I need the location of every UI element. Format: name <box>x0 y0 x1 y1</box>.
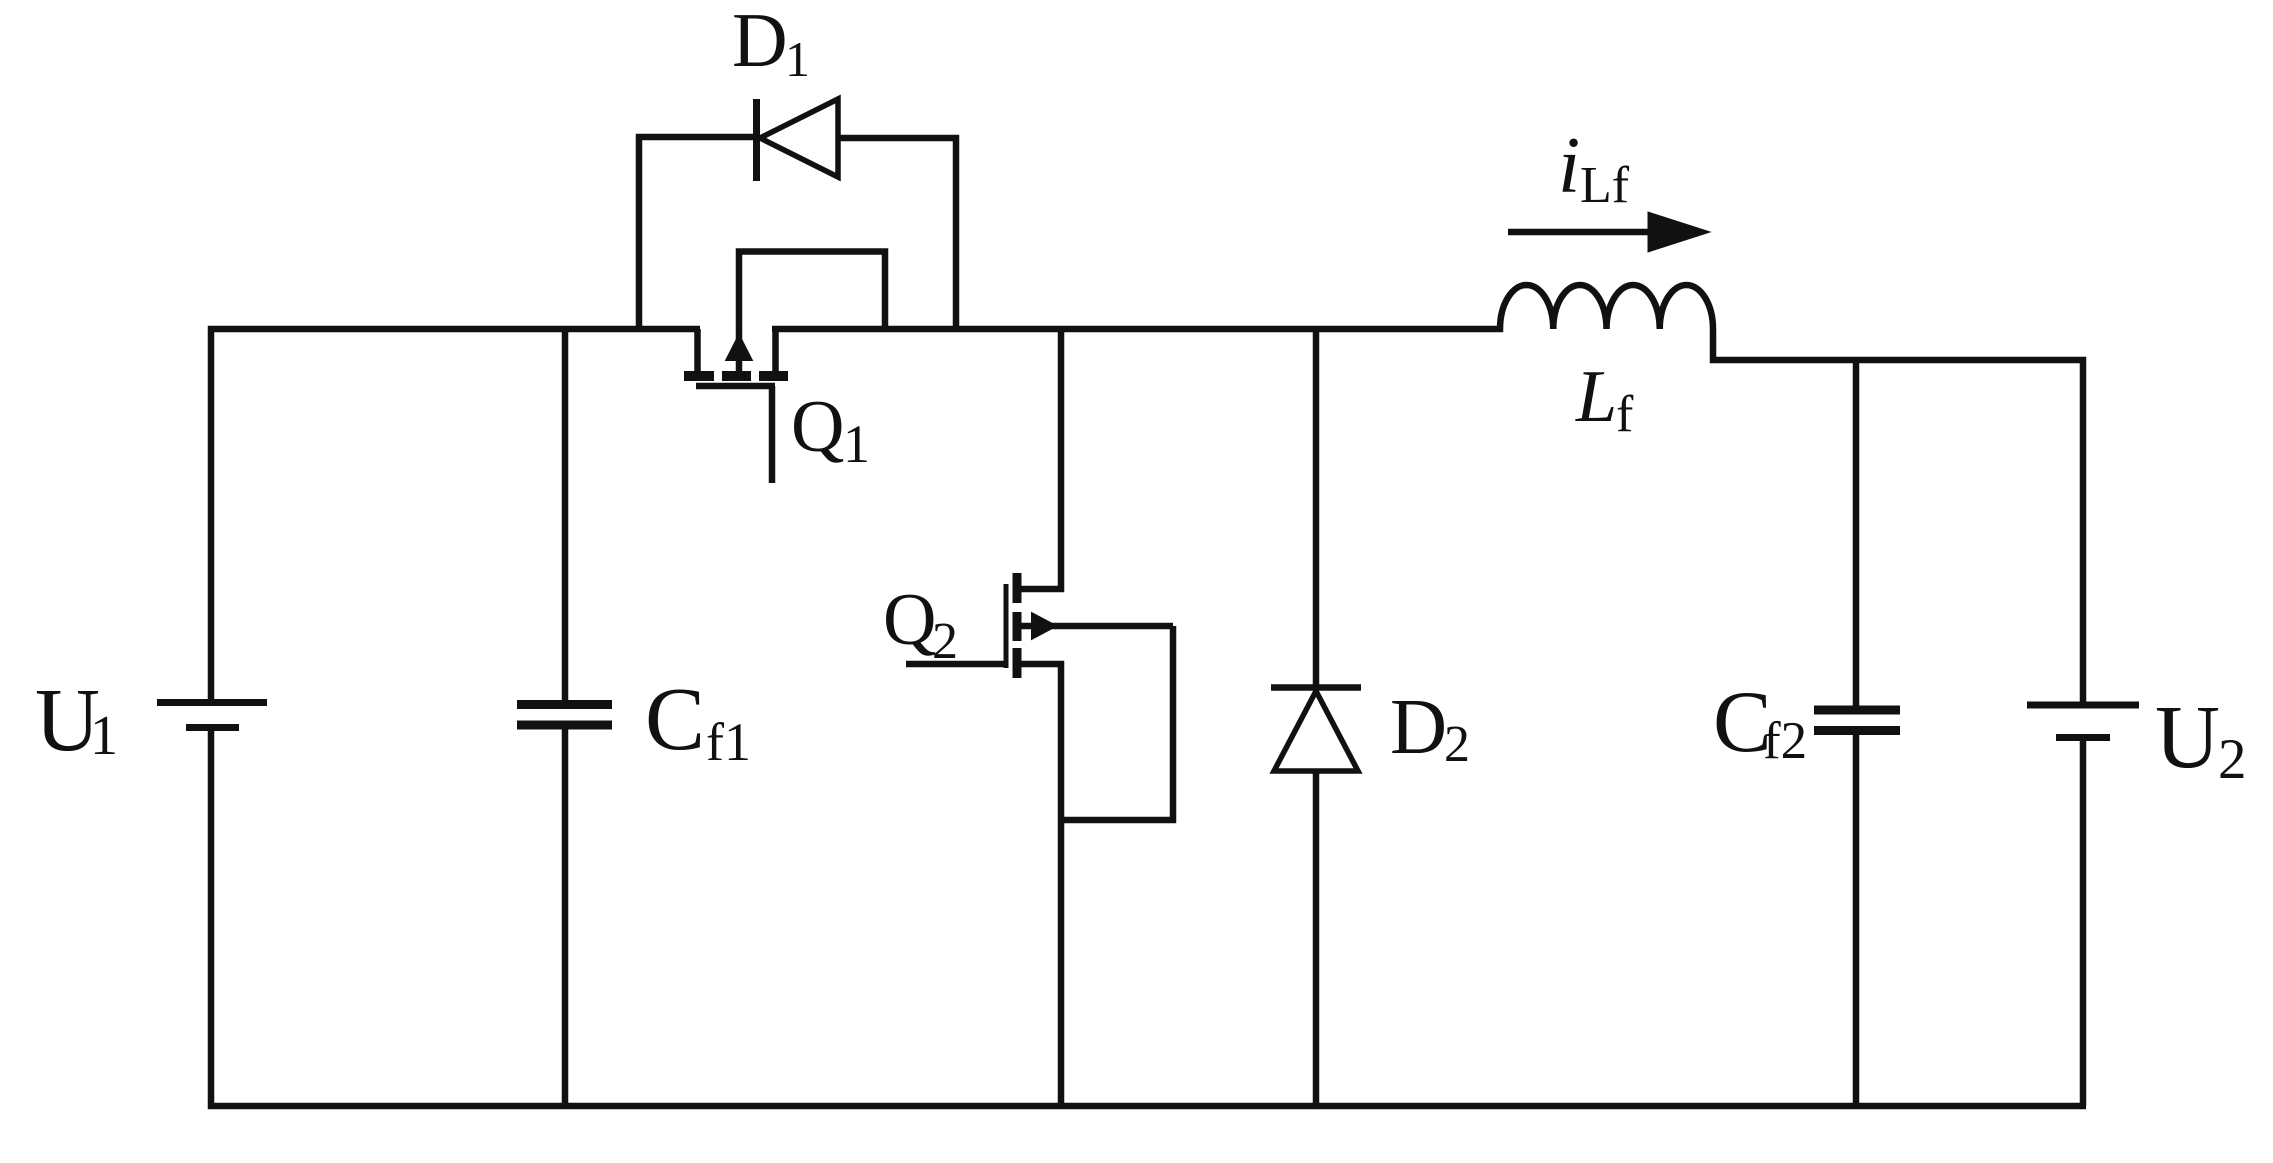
transistor Q2 drain lead from top bus with jog to channel <box>1021 329 1061 589</box>
diode D2 triangle <box>1274 691 1358 771</box>
svg-text:C: C <box>645 670 705 769</box>
capacitor Cf1 top plate <box>517 700 612 709</box>
capacitor Cf1 bottom plate <box>517 721 612 730</box>
svg-text:f2: f2 <box>1763 712 1807 770</box>
capacitor Cf2 top lead wire from output node <box>1853 360 1860 706</box>
capacitor Cf1 bottom lead wire <box>562 726 569 1106</box>
transistor Q2 body arrow head <box>1032 613 1058 640</box>
battery U1 short plate <box>186 724 239 731</box>
battery U1 positive lead wire and top bus left segment <box>211 329 700 702</box>
transistor Q2 channel bar middle <box>1013 612 1022 641</box>
battery U2 short plate <box>2056 734 2110 741</box>
battery U1 long plate <box>157 699 267 706</box>
transistor Q1 body arrow head <box>726 334 753 361</box>
transistor Q1 channel bar right <box>759 371 788 381</box>
capacitor Cf2 bottom plate <box>1814 726 1900 735</box>
svg-text:2: 2 <box>2218 728 2247 791</box>
current arrow iLf shaft <box>1508 229 1652 236</box>
transistor Q2 gate bar <box>1004 584 1009 668</box>
battery U1 negative lead wire, bottom-left corner, bottom bus <box>211 728 2086 1106</box>
svg-text:i: i <box>1558 122 1580 210</box>
capacitor Cf1 top lead wire <box>562 329 569 703</box>
current arrow iLf head <box>1648 212 1710 252</box>
svg-text:1: 1 <box>785 31 810 87</box>
capacitor Cf2 top plate <box>1814 706 1900 715</box>
transistor Q1 gate bar <box>696 383 775 390</box>
transistor Q1 gate lead <box>769 386 776 483</box>
battery U2 negative lead wire <box>2080 741 2087 1106</box>
capacitor Cf2 bottom lead wire <box>1853 733 1860 1106</box>
wire D1 cathode branch: across and down to top bus <box>838 138 956 329</box>
transistor Q2 source jog and lead down to bottom bus <box>1021 664 1061 1106</box>
wire Q1 body tie loop to source side of top bus <box>739 252 885 378</box>
svg-text:L: L <box>1575 356 1617 438</box>
battery U2 long plate <box>2027 702 2139 709</box>
diode D2 cathode bar <box>1271 684 1361 691</box>
svg-text:2: 2 <box>1444 716 1470 773</box>
transistor Q2 gate lead <box>906 661 1006 668</box>
transistor Q1 drain stub <box>694 329 701 374</box>
transistor Q1 source stub <box>772 329 779 374</box>
svg-text:Q: Q <box>791 386 844 468</box>
svg-text:f1: f1 <box>706 712 751 772</box>
svg-text:1: 1 <box>843 414 870 474</box>
transistor Q1 channel bar middle <box>722 371 751 381</box>
top bus right segment, inductor Lf coil humps, stepped wire to right rail, battery U2 positive lead <box>772 285 2083 702</box>
transistor Q2 channel bar bottom <box>1013 648 1022 678</box>
diode D1 triangle <box>760 99 838 177</box>
svg-text:1: 1 <box>90 705 118 767</box>
wire D2 anode lead to bottom bus <box>1313 771 1320 1106</box>
svg-text:Q: Q <box>883 579 936 661</box>
wire D1 anode branch: up from top bus, across to diode <box>639 137 753 329</box>
svg-text:f: f <box>1616 386 1634 443</box>
svg-text:D: D <box>732 0 788 83</box>
wire D2 cathode lead from top bus <box>1313 329 1320 687</box>
svg-text:2: 2 <box>932 613 958 670</box>
svg-text:U: U <box>2155 688 2220 787</box>
transistor Q1 channel bar left <box>684 371 714 381</box>
wire Q2 body tie loop down to source <box>1061 626 1173 820</box>
svg-text:D: D <box>1390 684 1447 771</box>
transistor Q2 body terminal wire <box>1021 623 1173 630</box>
diode D1 cathode bar <box>753 99 760 181</box>
svg-text:Lf: Lf <box>1580 157 1630 214</box>
transistor Q2 channel bar top <box>1013 573 1022 603</box>
